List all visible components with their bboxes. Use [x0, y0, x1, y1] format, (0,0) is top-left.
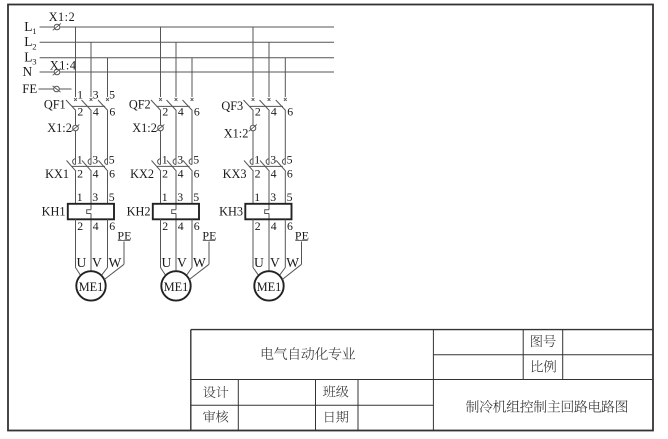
- svg-text:4: 4: [178, 219, 184, 233]
- svg-text:4: 4: [93, 167, 99, 181]
- svg-text:X1:2: X1:2: [132, 121, 157, 135]
- svg-text:W: W: [193, 255, 206, 270]
- svg-text:X1:2: X1:2: [49, 10, 76, 24]
- svg-text:W: W: [109, 255, 122, 270]
- svg-text:QF3: QF3: [221, 99, 243, 113]
- svg-text:V: V: [270, 255, 280, 270]
- svg-text:QF1: QF1: [44, 97, 66, 111]
- svg-text:6: 6: [287, 104, 293, 118]
- svg-text:4: 4: [178, 167, 184, 181]
- svg-text:KH2: KH2: [127, 204, 151, 218]
- svg-text:N: N: [23, 64, 33, 79]
- svg-text:5: 5: [193, 190, 199, 204]
- svg-text:V: V: [92, 255, 102, 270]
- svg-text:4: 4: [178, 104, 184, 118]
- svg-text:6: 6: [109, 219, 115, 233]
- svg-text:ME1: ME1: [257, 280, 282, 294]
- svg-text:X1:2: X1:2: [47, 121, 72, 135]
- svg-text:3: 3: [92, 190, 98, 204]
- svg-text:3: 3: [177, 153, 183, 167]
- svg-text:4: 4: [271, 219, 277, 233]
- svg-text:PE: PE: [117, 228, 131, 242]
- svg-text:6: 6: [194, 104, 200, 118]
- svg-text:1: 1: [77, 87, 83, 101]
- svg-text:6: 6: [287, 219, 293, 233]
- svg-text:1: 1: [254, 153, 260, 167]
- svg-text:4: 4: [271, 167, 277, 181]
- svg-text:KH1: KH1: [42, 204, 66, 218]
- svg-text:1: 1: [77, 190, 83, 204]
- svg-text:FE: FE: [22, 82, 37, 96]
- svg-text:3: 3: [270, 153, 276, 167]
- svg-text:5: 5: [287, 153, 293, 167]
- svg-text:KX3: KX3: [223, 167, 247, 181]
- svg-text:U: U: [77, 255, 87, 270]
- svg-text:1: 1: [77, 153, 83, 167]
- svg-text:V: V: [177, 255, 187, 270]
- svg-text:4: 4: [93, 104, 99, 118]
- svg-text:2: 2: [255, 167, 261, 181]
- svg-text:1: 1: [162, 190, 168, 204]
- svg-text:KX2: KX2: [130, 167, 154, 181]
- svg-text:3: 3: [270, 190, 276, 204]
- svg-text:W: W: [286, 255, 299, 270]
- svg-text:6: 6: [194, 167, 200, 181]
- svg-text:2: 2: [77, 104, 83, 118]
- svg-text:2: 2: [77, 219, 83, 233]
- svg-text:2: 2: [77, 167, 83, 181]
- svg-text:6: 6: [287, 167, 293, 181]
- svg-text:5: 5: [109, 190, 115, 204]
- svg-text:PE: PE: [295, 228, 309, 242]
- svg-text:2: 2: [255, 219, 261, 233]
- svg-text:X1:2: X1:2: [224, 126, 249, 140]
- svg-text:1: 1: [32, 26, 36, 36]
- svg-text:QF2: QF2: [129, 97, 151, 111]
- svg-text:3: 3: [92, 153, 98, 167]
- svg-text:6: 6: [194, 219, 200, 233]
- svg-text:U: U: [162, 255, 172, 270]
- svg-text:1: 1: [162, 153, 168, 167]
- svg-text:5: 5: [287, 190, 293, 204]
- svg-text:5: 5: [109, 153, 115, 167]
- svg-text:ME1: ME1: [164, 280, 189, 294]
- svg-text:3: 3: [177, 190, 183, 204]
- svg-text:PE: PE: [202, 228, 216, 242]
- svg-text:5: 5: [109, 87, 115, 101]
- svg-text:6: 6: [109, 104, 115, 118]
- svg-text:KH3: KH3: [219, 204, 243, 218]
- svg-text:X1:4: X1:4: [50, 58, 77, 72]
- svg-text:6: 6: [109, 167, 115, 181]
- svg-text:4: 4: [271, 104, 277, 118]
- svg-text:KX1: KX1: [45, 167, 69, 181]
- svg-text:1: 1: [254, 190, 260, 204]
- svg-text:2: 2: [162, 167, 168, 181]
- svg-text:3: 3: [93, 87, 99, 101]
- svg-text:2: 2: [255, 104, 261, 118]
- svg-text:5: 5: [193, 153, 199, 167]
- svg-text:U: U: [254, 255, 264, 270]
- svg-text:2: 2: [162, 104, 168, 118]
- svg-text:2: 2: [32, 41, 36, 51]
- svg-text:3: 3: [32, 57, 36, 67]
- svg-text:4: 4: [93, 219, 99, 233]
- svg-text:ME1: ME1: [79, 280, 104, 294]
- svg-text:2: 2: [162, 219, 168, 233]
